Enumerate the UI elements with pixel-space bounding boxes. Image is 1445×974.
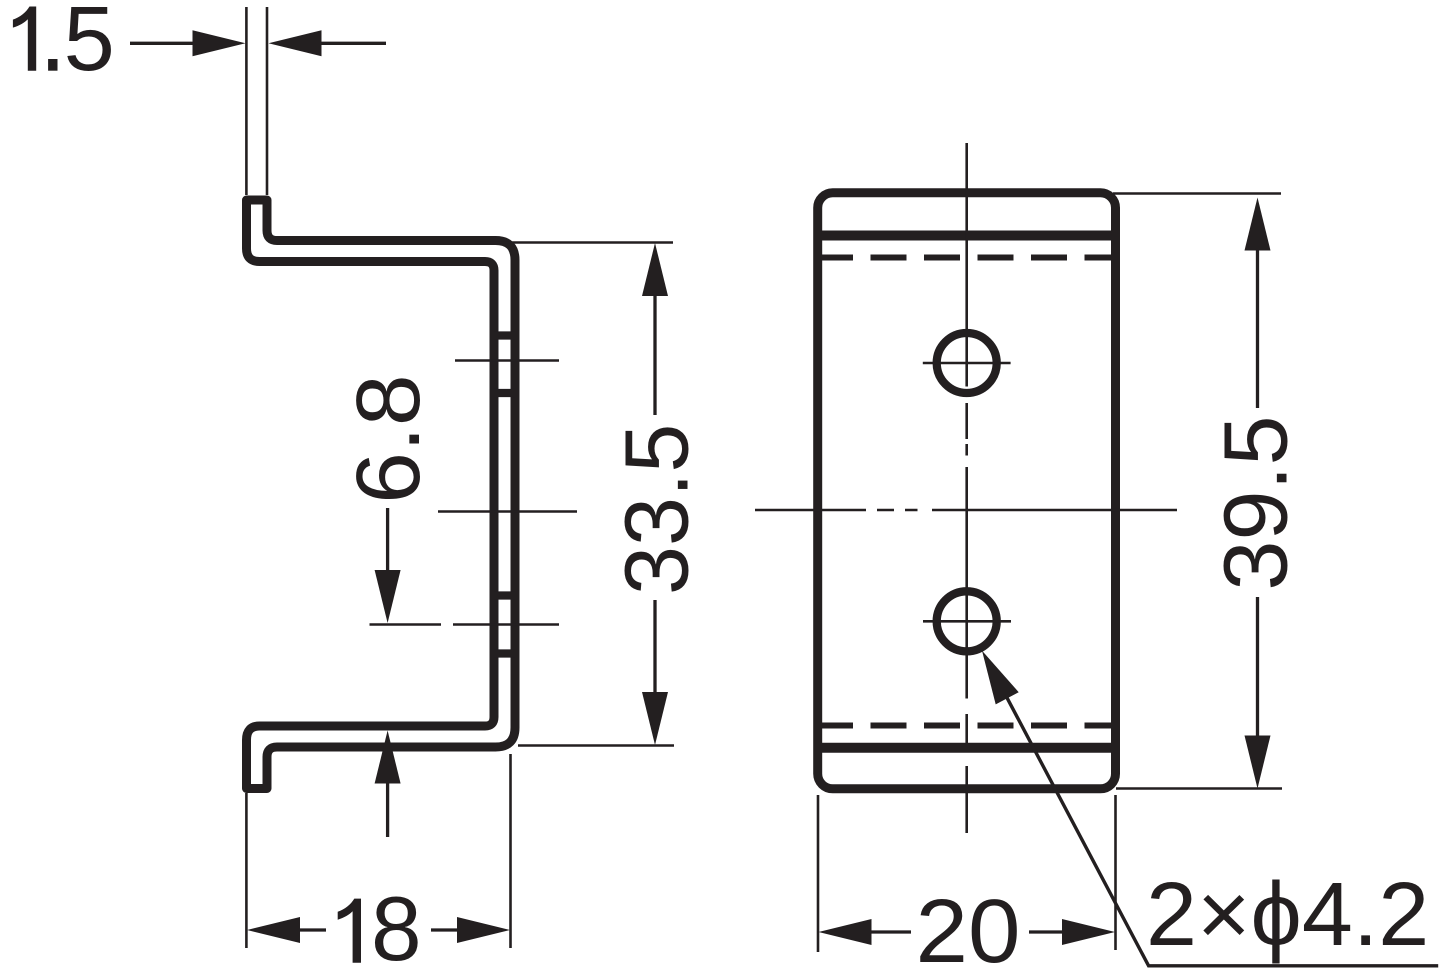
front view: top hole xyxy=(937,333,997,393)
side view: bottom hole upper edge xyxy=(494,591,515,599)
dim 1.5: right arrowhead xyxy=(269,30,322,56)
svg-text:20: 20 xyxy=(916,882,1021,974)
leader line for 2xphi4.2 xyxy=(986,658,1438,966)
dim 20: dimension line tails xyxy=(870,930,1063,933)
front view: top hole tick xyxy=(923,362,1011,365)
dim 39.5: bottom extension line xyxy=(1116,787,1282,790)
dim 1.5: extension line left (tab outer) xyxy=(245,7,248,195)
svg-text:2×ϕ4.2: 2×ϕ4.2 xyxy=(1146,865,1429,965)
dim 18: dimension line tails xyxy=(299,928,458,931)
dim 33.5: down arrowhead xyxy=(642,692,668,745)
label 18 xyxy=(338,879,422,974)
side view: bottom hole centerline tick xyxy=(370,623,560,626)
dim 39.5: dimension line xyxy=(1256,249,1259,737)
front view: bottom hole tick xyxy=(923,620,1011,623)
dim 20: left arrowhead xyxy=(819,919,872,945)
front view: bottom bend line solid xyxy=(822,743,1111,753)
side view: bottom hole lower edge xyxy=(494,649,515,657)
dim 6.8: dimension line lower xyxy=(386,783,389,837)
leader arrowhead at bottom hole xyxy=(982,651,1019,705)
dim 20: left extension line xyxy=(817,795,820,952)
dim 18: left arrowhead xyxy=(247,917,300,943)
front view: bottom bend line dashed xyxy=(822,723,1111,729)
dim 6.8: dimension line upper xyxy=(386,508,389,572)
dim 18: right arrowhead xyxy=(457,917,510,943)
svg-text:8: 8 xyxy=(371,879,422,974)
side view: top hole lower edge xyxy=(494,389,515,397)
dim 20: right extension line xyxy=(1114,795,1117,950)
side view: top hole upper edge xyxy=(494,331,515,339)
dim 6.8: up arrowhead xyxy=(375,731,401,784)
dim 33.5: bottom extension line xyxy=(518,744,674,747)
front view: horizontal centerline xyxy=(755,509,1177,512)
dim 39.5: top extension line xyxy=(1113,192,1281,195)
front view: bottom hole xyxy=(937,591,997,651)
front view: top bend line solid xyxy=(822,231,1111,241)
svg-text:39.5: 39.5 xyxy=(1207,415,1307,590)
label 1.5 xyxy=(13,0,115,90)
dim 1.5: dimension line tails xyxy=(130,42,386,45)
svg-text:6.8: 6.8 xyxy=(339,374,439,503)
side view: bracket profile outline xyxy=(247,200,516,789)
dim 33.5: up arrowhead xyxy=(642,243,668,296)
dim 18: left extension line xyxy=(245,793,248,948)
front view: top bend line dashed xyxy=(822,255,1111,261)
dim 1.5: extension line right (tab inner) xyxy=(266,7,269,195)
front view: plate outline rounded rect xyxy=(818,193,1116,789)
dim 6.8: down arrowhead xyxy=(375,570,401,623)
front view: vertical centerline xyxy=(965,143,968,833)
svg-text:33.5: 33.5 xyxy=(607,424,707,595)
dim 1.5: left arrowhead xyxy=(193,30,246,56)
dim 33.5: dimension line xyxy=(653,294,656,694)
side view: middle centerline tick xyxy=(438,510,577,513)
dim 39.5: down arrowhead xyxy=(1245,736,1271,789)
dim 39.5: up arrowhead xyxy=(1245,198,1271,251)
side view: top hole centerline tick xyxy=(455,359,559,362)
dim 20: right arrowhead xyxy=(1062,919,1115,945)
svg-text:5: 5 xyxy=(64,0,115,90)
dim 33.5: top extension line xyxy=(475,241,673,244)
dim 18: right extension line xyxy=(509,754,512,948)
